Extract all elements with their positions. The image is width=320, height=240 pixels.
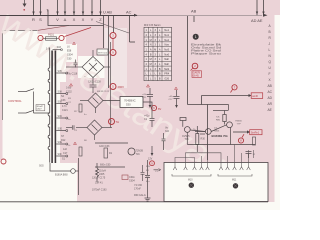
svg-text:X: X bbox=[82, 17, 85, 22]
svg-text:NoS: NoS bbox=[164, 48, 169, 51]
svg-text:4.7n: 4.7n bbox=[62, 105, 67, 108]
svg-text:MR W C122: MR W C122 bbox=[97, 91, 110, 93]
svg-text:G26: G26 bbox=[164, 78, 169, 81]
svg-text:BC836B 70k: BC836B 70k bbox=[212, 134, 229, 138]
svg-text:U AB: U AB bbox=[103, 10, 112, 15]
svg-text:AR: AR bbox=[268, 102, 273, 106]
svg-text:33R 41: 33R 41 bbox=[95, 182, 103, 185]
svg-text:amR: amR bbox=[252, 94, 258, 98]
svg-text:0/827: 0/827 bbox=[37, 108, 42, 110]
svg-text:AE: AE bbox=[268, 108, 272, 112]
svg-text:120uF C175: 120uF C175 bbox=[92, 177, 106, 180]
svg-text:S0G: S0G bbox=[39, 165, 44, 168]
svg-text:S05: S05 bbox=[58, 70, 63, 73]
svg-text:530: 530 bbox=[126, 102, 131, 106]
svg-text:AB: AB bbox=[268, 84, 272, 88]
svg-text:31R: 31R bbox=[146, 166, 150, 168]
svg-text:M: M bbox=[154, 48, 156, 51]
svg-text:M11: M11 bbox=[232, 180, 237, 182]
svg-text:AC: AC bbox=[126, 10, 132, 15]
svg-text:GCN C33: GCN C33 bbox=[99, 145, 110, 148]
svg-text:M10: M10 bbox=[188, 180, 193, 182]
svg-text:B: B bbox=[269, 30, 271, 34]
svg-text:C132: C132 bbox=[66, 91, 72, 94]
svg-text:S: S bbox=[39, 17, 42, 22]
svg-text:X: X bbox=[73, 17, 76, 22]
svg-text:+41u: +41u bbox=[169, 96, 175, 98]
svg-text:1-0: 1-0 bbox=[46, 46, 50, 50]
svg-text:B160A BI60: B160A BI60 bbox=[55, 174, 68, 177]
svg-text:Ne1: Ne1 bbox=[164, 29, 169, 32]
svg-text:AC: AC bbox=[268, 90, 273, 94]
svg-text:Δ: Δ bbox=[64, 17, 67, 22]
svg-text:AD AE: AD AE bbox=[251, 18, 263, 23]
svg-text:M: M bbox=[150, 58, 152, 61]
svg-text:CONTROL: CONTROL bbox=[8, 99, 22, 103]
svg-text:S03: S03 bbox=[57, 46, 62, 49]
svg-text:Ne2: Ne2 bbox=[164, 39, 169, 42]
svg-text:8V: 8V bbox=[158, 107, 161, 111]
svg-text:S08: S08 bbox=[58, 90, 63, 93]
svg-text:T06: T06 bbox=[185, 138, 190, 141]
svg-text:S0D: S0D bbox=[58, 127, 63, 130]
svg-text:NaF: NaF bbox=[164, 63, 169, 66]
svg-text:C33: C33 bbox=[61, 99, 66, 102]
svg-text:C604: C604 bbox=[67, 54, 73, 57]
svg-text:M: M bbox=[150, 39, 152, 42]
svg-text:R60 GALG: R60 GALG bbox=[134, 194, 146, 197]
svg-text:NaS: NaS bbox=[164, 68, 169, 71]
svg-text:N: N bbox=[150, 44, 152, 47]
svg-text:TH: TH bbox=[116, 120, 120, 124]
svg-text:R30: R30 bbox=[201, 138, 206, 141]
svg-text:W79 C02: W79 C02 bbox=[98, 53, 108, 55]
svg-text:T16: T16 bbox=[136, 153, 141, 156]
svg-text:F601: F601 bbox=[48, 33, 54, 37]
svg-text:AD: AD bbox=[268, 96, 273, 100]
svg-text:M: M bbox=[150, 63, 152, 66]
svg-text:GA678: GA678 bbox=[193, 72, 201, 75]
svg-text:290V: 290V bbox=[118, 85, 125, 89]
svg-text:+: + bbox=[95, 59, 97, 63]
svg-text:12V: 12V bbox=[148, 158, 153, 161]
svg-text:S0F: S0F bbox=[58, 153, 63, 156]
svg-text:C17: C17 bbox=[63, 152, 68, 155]
svg-text:1uF: 1uF bbox=[63, 148, 68, 151]
svg-text:R: R bbox=[32, 17, 35, 22]
svg-text:M R C B Samm: M R C B Samm bbox=[144, 24, 161, 27]
svg-text:S0C: S0C bbox=[58, 115, 63, 118]
svg-text:600n C60: 600n C60 bbox=[100, 164, 111, 167]
svg-text:SerRe1: SerRe1 bbox=[251, 132, 260, 135]
svg-text:YN666: YN666 bbox=[235, 121, 242, 123]
svg-text:R12: R12 bbox=[61, 139, 66, 142]
svg-text:10r: 10r bbox=[214, 127, 217, 130]
svg-text:No6: No6 bbox=[164, 53, 169, 56]
svg-text:1: 1 bbox=[195, 35, 197, 39]
svg-text:NaF: NaF bbox=[164, 58, 169, 61]
svg-text:L605: L605 bbox=[99, 173, 105, 176]
svg-text:0.60r: 0.60r bbox=[66, 87, 72, 90]
svg-text:Y: Y bbox=[91, 17, 94, 22]
svg-text:PR4: PR4 bbox=[164, 73, 169, 76]
svg-text:L: L bbox=[269, 48, 271, 52]
svg-text:AB: AB bbox=[191, 9, 197, 14]
svg-text:C604: C604 bbox=[129, 179, 135, 182]
svg-text:Plaque Sono: Plaque Sono bbox=[191, 51, 222, 55]
svg-text:TYP: TYP bbox=[237, 124, 242, 126]
svg-text:V: V bbox=[56, 17, 59, 22]
svg-text:1970uF C163: 1970uF C163 bbox=[92, 189, 107, 192]
svg-text:Nos: Nos bbox=[164, 44, 169, 47]
svg-text:06-45: 06-45 bbox=[193, 76, 200, 78]
svg-text:C60: C60 bbox=[67, 58, 72, 61]
svg-text:170nF: 170nF bbox=[134, 187, 141, 190]
svg-text:F: F bbox=[269, 72, 271, 76]
svg-text:C/02u C128: C/02u C128 bbox=[88, 81, 101, 84]
svg-text:4.70u C118: 4.70u C118 bbox=[65, 73, 78, 76]
svg-text:+41u: +41u bbox=[142, 94, 148, 96]
svg-text:No1: No1 bbox=[164, 34, 169, 37]
svg-text:E58: E58 bbox=[67, 50, 72, 53]
svg-text:3n0: 3n0 bbox=[165, 130, 170, 133]
svg-text:C121: C121 bbox=[62, 109, 68, 112]
svg-text:R806: R806 bbox=[214, 131, 220, 133]
